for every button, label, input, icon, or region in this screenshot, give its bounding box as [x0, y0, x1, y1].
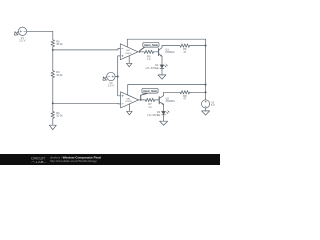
- svg-text:Alarm_State: Alarm_State: [144, 44, 158, 47]
- LED D2: [162, 110, 170, 114]
- CircuitLab logo: [31, 155, 46, 164]
- LED D1: [160, 64, 167, 69]
- wire Q2 collector to R8: [164, 91, 180, 93]
- resistor R8: [180, 91, 190, 94]
- svg-text:LTL-307EE: LTL-307EE: [146, 66, 159, 70]
- D1 label: [146, 63, 159, 70]
- wire D1 to ground: [161, 68, 163, 75]
- ground (Vref negative, diagonal flag): [101, 75, 108, 82]
- wire V1 to divider top: [27, 31, 53, 40]
- D2 label: [147, 110, 160, 117]
- node A junction dot: [52, 49, 54, 51]
- wire node A to op-amp1 inverting input: [53, 49, 121, 50]
- svg-text:http://circuitlab.com/c/5rw5n4: http://circuitlab.com/c/5rw5n43csgp: [50, 159, 97, 163]
- net flag Alarm_State (lower): [141, 88, 158, 100]
- op-amp U2 V- supply stub: [128, 104, 130, 111]
- R3 value label: [56, 70, 63, 77]
- resistor R4: [51, 111, 54, 118]
- node Vref junction dot: [117, 76, 119, 78]
- Q1 label: [165, 48, 175, 55]
- svg-text:10.0k: 10.0k: [56, 73, 63, 77]
- svg-text:-^-LAB--: -^-LAB--: [31, 160, 46, 164]
- node rail-Vplus2 junction dot: [205, 84, 207, 86]
- wire R4 to ground: [52, 119, 54, 126]
- node rail-R6 junction dot: [205, 45, 207, 47]
- wire op-amp2 V+ to Vcc rail: [128, 85, 206, 95]
- wire Q1 collector to R6: [162, 45, 180, 47]
- resistor R3: [51, 71, 54, 78]
- V3 value label: [108, 81, 114, 88]
- wire R8 to Vcc rail: [190, 91, 206, 93]
- Q2 label: [166, 96, 176, 103]
- net flag Alarm_State (upper): [140, 42, 159, 52]
- op-amp U2 label: [126, 97, 133, 103]
- ground (V2 negative): [202, 111, 210, 115]
- Vcc rail wire: [205, 39, 207, 99]
- wire node B to op-amp2 non-inverting input: [53, 102, 121, 105]
- R6 value label: [183, 47, 187, 54]
- wire op-amp1 V+ to Vcc rail: [127, 39, 205, 47]
- node output1 dot: [139, 51, 141, 53]
- op-amp U2: [121, 92, 139, 108]
- R5 value label: [147, 54, 151, 61]
- svg-text:10.0k: 10.0k: [56, 114, 63, 118]
- R2 value label: [56, 39, 63, 46]
- ground (D1 cathode): [158, 75, 166, 79]
- svg-text:2N3904: 2N3904: [166, 99, 176, 103]
- op-amp U1 V- supply stub: [128, 56, 130, 63]
- node B junction dot: [52, 102, 54, 104]
- svg-text:CIRCUIT: CIRCUIT: [31, 155, 46, 160]
- voltage source V2 (Vcc): [202, 100, 210, 108]
- wire R6 to Vcc rail: [190, 45, 206, 47]
- svg-text:2N3904: 2N3904: [165, 50, 175, 54]
- resistor R5: [144, 50, 154, 53]
- R4 value label: [56, 111, 63, 118]
- resistor R6: [180, 44, 190, 47]
- transistor Q1: [159, 46, 162, 59]
- op-amp U1 label: [125, 49, 132, 55]
- footer text: [50, 155, 101, 163]
- wire Q2 emitter to D2: [163, 107, 165, 112]
- wire R2 to junction A: [52, 47, 54, 71]
- R7 value label: [148, 102, 152, 109]
- svg-text:LM393: LM393: [126, 101, 133, 103]
- voltage source V1: [18, 27, 26, 35]
- wire op-amp1 +input to Vref rail: [118, 56, 121, 77]
- svg-text:2.5 V: 2.5 V: [19, 39, 25, 43]
- voltage source V3 (Vref): [107, 72, 115, 80]
- svg-text:5 V: 5 V: [211, 103, 215, 107]
- V1 value label: [19, 36, 25, 43]
- svg-text:LM393: LM393: [125, 53, 132, 55]
- ground (D2 cathode): [160, 121, 168, 125]
- wire Vref to rail: [115, 76, 118, 78]
- wire V2 to ground: [205, 108, 207, 111]
- wire D2 to ground: [163, 115, 165, 121]
- wire Q1 emitter to D1: [161, 59, 163, 65]
- wire R7 to Q2 base: [155, 99, 159, 101]
- wire R5 to Q1 base: [154, 51, 159, 53]
- transistor Q2: [159, 92, 163, 106]
- wire op-amp2 output to R7: [139, 99, 146, 101]
- ground (bottom of divider): [49, 125, 56, 129]
- svg-text:40.0k: 40.0k: [56, 42, 63, 46]
- svg-text:LTL-307EE: LTL-307EE: [147, 113, 160, 117]
- svg-text:2.5 V: 2.5 V: [108, 84, 114, 88]
- V2 value label: [211, 100, 215, 107]
- wire op-amp1 output to R5: [138, 51, 144, 53]
- resistor R7: [145, 98, 155, 101]
- footer bar: [0, 154, 220, 165]
- node rail-R8 junction dot: [205, 91, 207, 93]
- node output2 dot: [140, 99, 142, 101]
- wire Vref rail to op-amp2 top input: [118, 77, 121, 96]
- ground (V1 negative, diagonal flag): [13, 30, 20, 37]
- svg-text:Alarm_State: Alarm_State: [143, 90, 157, 93]
- ground (op-amp U1 V-): [126, 63, 132, 67]
- R8 value label: [183, 94, 187, 101]
- ground (op-amp U2 V-): [127, 111, 133, 115]
- op-amp U1: [120, 44, 138, 60]
- resistor R2: [51, 40, 54, 47]
- wire R3 to junction B: [52, 78, 54, 112]
